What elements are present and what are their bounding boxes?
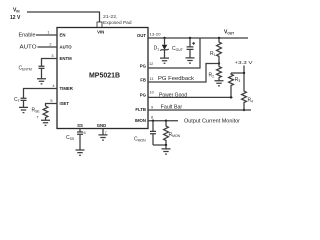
svg-text:9: 9: [151, 104, 153, 109]
node +3.3V: [231, 60, 254, 74]
wire AUTO: [38, 46, 58, 48]
capacitor CENTM: [19, 65, 45, 78]
svg-text:21-22,: 21-22,: [103, 14, 118, 19]
resistor R2: [209, 64, 222, 81]
svg-text:OUT: OUT: [137, 33, 146, 38]
svg-text:12: 12: [149, 61, 153, 66]
ground COUT: [186, 58, 195, 63]
junction RMON top: [165, 120, 167, 122]
ground R2: [215, 81, 224, 86]
ground CT: [19, 107, 28, 112]
svg-text:VIN: VIN: [97, 30, 104, 35]
node VIN 12V: [10, 8, 21, 21]
svg-text:+3.3 V: +3.3 V: [235, 60, 254, 66]
capacitor COUT: [172, 38, 195, 58]
svg-text:SS: SS: [77, 123, 83, 128]
svg-text:Output Current Monitor: Output Current Monitor: [184, 119, 240, 125]
svg-text:Enable: Enable: [19, 32, 36, 38]
capacitor CSS: [66, 132, 83, 150]
svg-text:8: 8: [151, 114, 153, 119]
junction CMON: [152, 120, 154, 122]
wire ENTM: [42, 59, 58, 67]
ground RSET: [41, 120, 50, 125]
pin 11 FB: [140, 76, 153, 82]
svg-text:13-20: 13-20: [150, 31, 162, 36]
ground CENTM: [37, 79, 46, 84]
junction R1-R2: [218, 62, 220, 64]
svg-text:TIMER: TIMER: [60, 86, 74, 91]
junction R4 bottom: [243, 109, 245, 111]
exposed pad pin 21-22: [97, 14, 132, 28]
svg-text:5: 5: [50, 98, 52, 103]
svg-text:Exposed Pad: Exposed Pad: [103, 20, 132, 25]
svg-text:AUTO: AUTO: [20, 44, 37, 50]
capacitor CT: [14, 97, 27, 107]
wire pin12 VOUT sense: [148, 38, 200, 68]
pin 1 EN: [47, 30, 65, 38]
pin 6 SS: [77, 123, 86, 135]
wire ISET: [46, 104, 58, 107]
wire TIMER: [24, 89, 58, 99]
pin 8 IMON: [135, 114, 153, 123]
pin 3 ENTM: [51, 53, 72, 61]
svg-text:Power Good: Power Good: [159, 92, 187, 98]
junction R1 top: [218, 37, 220, 39]
resistor RSET: [32, 106, 48, 120]
svg-text:AUTO: AUTO: [60, 45, 73, 50]
svg-text:Fault Bar: Fault Bar: [161, 104, 183, 110]
svg-text:MP5021B: MP5021B: [89, 73, 120, 80]
pin 10 PG: [140, 90, 155, 98]
IC U1 MP5021B: [57, 28, 148, 129]
wire Power Good: [148, 96, 233, 98]
svg-text:6: 6: [84, 130, 86, 135]
pin 7 GND: [97, 123, 107, 135]
svg-text:FB: FB: [140, 77, 146, 82]
svg-text:ISET: ISET: [60, 101, 70, 106]
wire VOUT rail: [148, 37, 248, 39]
svg-text:PG Feedback: PG Feedback: [158, 76, 194, 82]
resistor R3: [229, 73, 241, 97]
ground RMON: [162, 145, 171, 154]
resistor R1: [210, 38, 221, 64]
ground CSS: [76, 150, 85, 155]
junction R3 bottom: [230, 96, 232, 98]
wire GND: [102, 129, 104, 135]
junction join: [165, 144, 167, 146]
wire CMON-RMON join: [153, 144, 166, 146]
pin 12 PG: [140, 61, 154, 68]
svg-text:7: 7: [105, 130, 107, 135]
ground GND pin: [99, 135, 108, 140]
junction COUT top: [189, 37, 191, 39]
svg-text:EN: EN: [60, 33, 66, 38]
pin 9 FLTB: [135, 104, 153, 112]
resistor RMON: [164, 121, 181, 145]
pin 13-20 OUT: [137, 31, 161, 38]
svg-text:GND: GND: [97, 123, 107, 128]
svg-text:1: 1: [47, 30, 49, 35]
svg-text:PG: PG: [140, 63, 147, 68]
svg-text:T: T: [37, 116, 39, 120]
wire FB / PG Feedback: [148, 64, 219, 83]
junction D1 top: [163, 37, 165, 39]
svg-text:11: 11: [150, 76, 154, 81]
wire IMON: [148, 120, 178, 122]
ground D1: [160, 58, 169, 63]
svg-text:FLTB: FLTB: [135, 107, 146, 112]
wire Enable: [36, 34, 57, 36]
capacitor CMON: [134, 121, 156, 145]
pin 5 ISET: [50, 98, 69, 106]
resistor R4: [242, 73, 254, 110]
wire Fault Bar: [148, 109, 251, 111]
diode D1: [154, 38, 169, 58]
pin 2 AUTO: [49, 42, 72, 50]
svg-text:IMON: IMON: [135, 118, 146, 123]
svg-text:12 V: 12 V: [10, 15, 21, 21]
svg-text:ENTM: ENTM: [60, 56, 73, 61]
wire SS: [79, 129, 81, 132]
wire VIN to exposed pad: [27, 12, 100, 22]
pin 4 TIMER: [52, 83, 73, 91]
svg-text:2: 2: [49, 42, 51, 47]
svg-text:3: 3: [51, 53, 53, 58]
svg-text:PG: PG: [140, 93, 147, 98]
